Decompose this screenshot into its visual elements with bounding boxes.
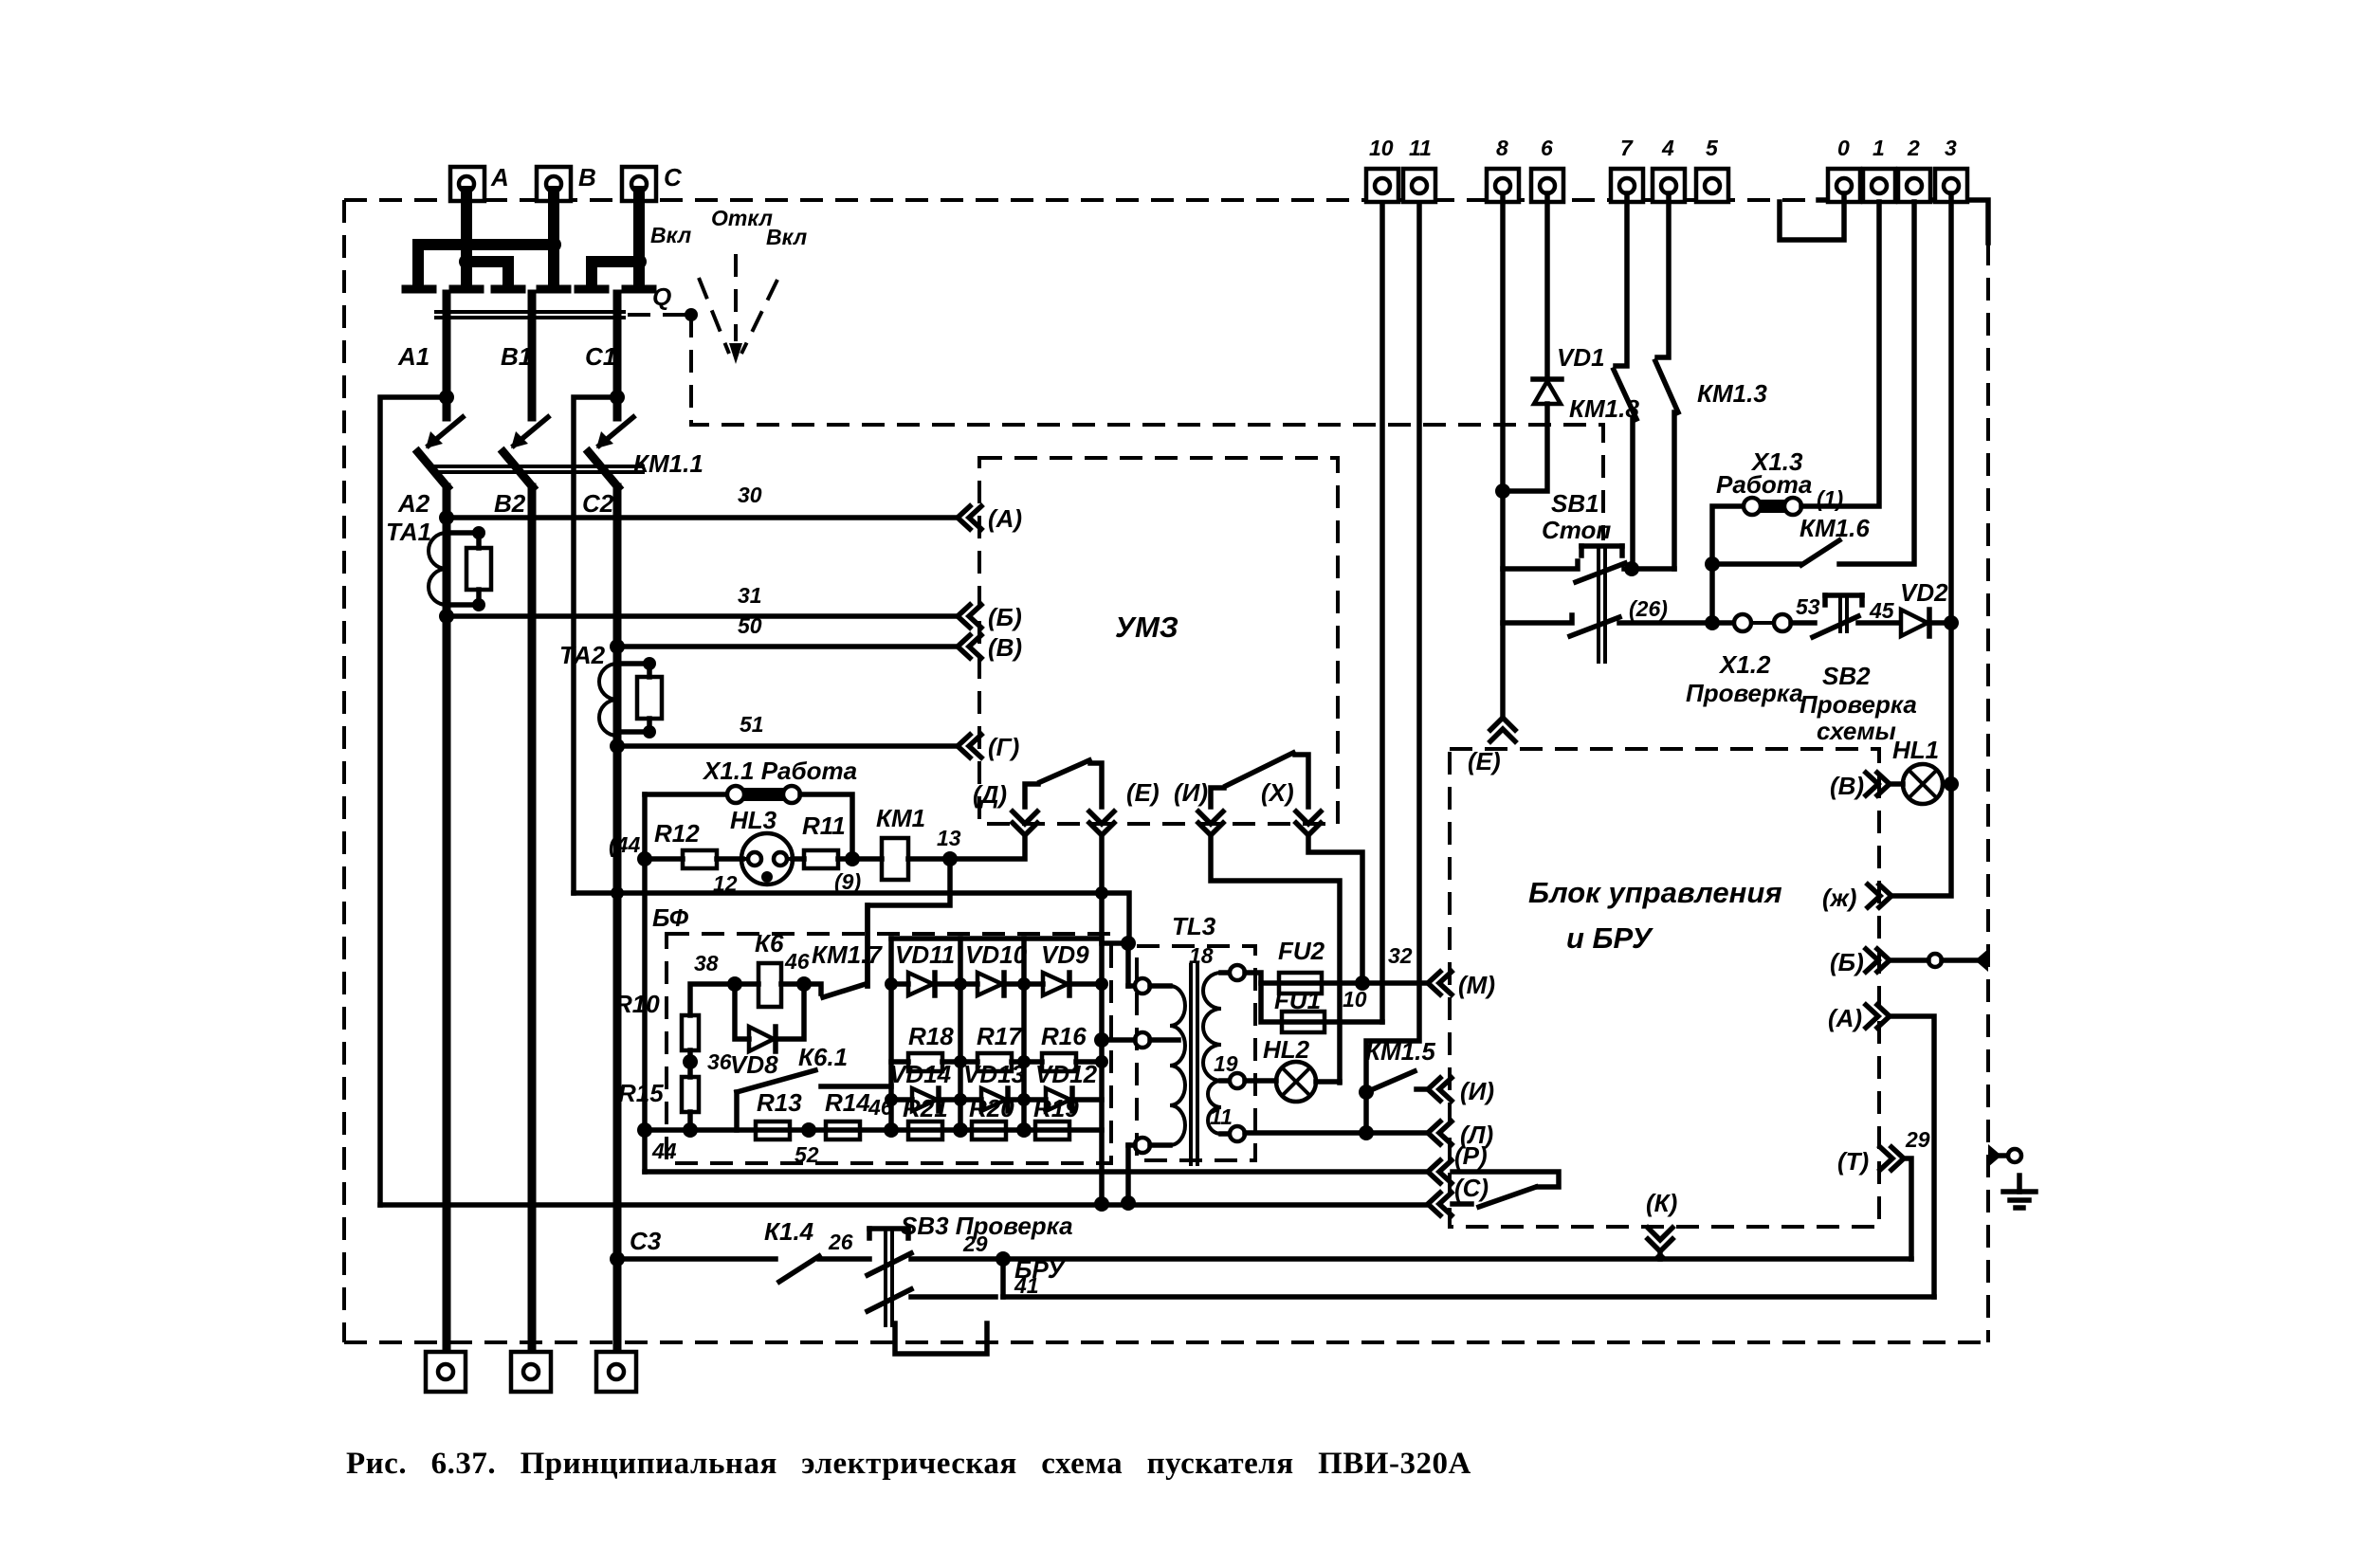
resistor R14 xyxy=(825,1088,893,1140)
svg-text:R15: R15 xyxy=(618,1079,664,1107)
wire terminal 0 loop xyxy=(1780,193,1844,240)
junction B bar xyxy=(546,237,561,252)
contact KM1.5 xyxy=(1359,202,1435,1133)
diode VD2 xyxy=(1900,578,1951,636)
svg-text:Вкл: Вкл xyxy=(766,225,807,249)
svg-text:R10: R10 xyxy=(614,990,660,1018)
connector (E) BRU xyxy=(1468,718,1515,775)
connector (B) xyxy=(958,603,1022,631)
connector (T) BRU xyxy=(1837,1127,1930,1176)
resistor TA1 burden xyxy=(447,526,491,611)
TL3 primary winding xyxy=(1094,978,1185,1211)
UMZ internal contact I-X xyxy=(1211,753,1308,807)
svg-text:VD12: VD12 xyxy=(1035,1060,1098,1088)
block BF dashed box xyxy=(652,903,1111,1163)
svg-text:ТА2: ТА2 xyxy=(559,641,606,669)
wire 41 to (A) xyxy=(1003,1294,1934,1300)
svg-text:38: 38 xyxy=(694,951,719,975)
breaker release arrow C xyxy=(596,417,633,448)
svg-text:(И): (И) xyxy=(1174,778,1208,807)
svg-text:(Б): (Б) xyxy=(988,603,1022,631)
junction C bar xyxy=(631,254,647,269)
node 46 xyxy=(784,949,812,992)
relay coil K6 xyxy=(735,929,804,1007)
terminal 11 xyxy=(1403,136,1435,202)
svg-text:(Р): (Р) xyxy=(1454,1141,1488,1170)
terminal B xyxy=(537,163,596,201)
connector (B) BRU xyxy=(1830,948,1890,976)
terminal 4 xyxy=(1653,136,1685,202)
terminal A xyxy=(450,163,509,201)
wire 32 to BRU (M) xyxy=(1355,943,1428,991)
connector X1.1 Rabota xyxy=(645,757,857,859)
svg-text:HL1: HL1 xyxy=(1892,736,1939,764)
disconnector Q crossbar xyxy=(434,283,671,318)
svg-text:30: 30 xyxy=(738,483,762,507)
svg-text:С3: С3 xyxy=(630,1227,662,1255)
diode VD14 xyxy=(889,1060,960,1111)
wire phase B feed xyxy=(548,191,559,286)
terminal 5 xyxy=(1696,136,1728,202)
resistor R11 xyxy=(793,811,852,868)
svg-text:(26): (26) xyxy=(1629,596,1668,621)
wire 30 to UMZ (A) xyxy=(439,483,958,525)
terminal C2 bottom xyxy=(596,1352,636,1392)
diode bridge verticals xyxy=(891,939,1102,1130)
svg-text:32: 32 xyxy=(1388,943,1413,968)
connector (Zh) BRU xyxy=(1822,884,1891,912)
terminal C xyxy=(622,163,683,201)
terminal 2 xyxy=(1898,136,1930,202)
lamp HL2 xyxy=(1245,1035,1340,1102)
wire terminal 3 down xyxy=(1891,193,1959,896)
figure caption xyxy=(346,1447,1471,1481)
row2 junctions xyxy=(954,1055,1108,1068)
svg-text:Х1.2: Х1.2 xyxy=(1718,650,1771,679)
svg-text:29: 29 xyxy=(962,1231,988,1256)
wire phase C feed xyxy=(633,191,645,281)
svg-text:В1: В1 xyxy=(501,342,532,371)
resistor R12 xyxy=(645,819,742,868)
svg-text:(В): (В) xyxy=(1830,772,1864,800)
svg-text:схемы: схемы xyxy=(1817,717,1896,745)
column C1 xyxy=(585,294,617,417)
svg-text:Стоп: Стоп xyxy=(1542,516,1611,544)
transformer TL3 dashed box xyxy=(1137,912,1255,1160)
svg-text:45: 45 xyxy=(1869,598,1895,623)
svg-text:VD9: VD9 xyxy=(1041,940,1089,969)
svg-text:К6: К6 xyxy=(755,929,784,957)
connector (L) BRU xyxy=(1428,1121,1493,1149)
enclosure dashed border top xyxy=(344,200,1988,243)
contact KM1.3 xyxy=(1655,193,1767,569)
Q linkage dashed xyxy=(628,308,1603,540)
svg-text:(ж): (ж) xyxy=(1822,884,1856,912)
svg-text:HL2: HL2 xyxy=(1263,1035,1310,1064)
svg-text:А1: А1 xyxy=(397,342,429,371)
svg-text:FU1: FU1 xyxy=(1274,986,1321,1014)
junction A bar xyxy=(459,254,474,269)
node (9) xyxy=(834,851,861,894)
svg-text:13: 13 xyxy=(937,826,961,850)
Q position arrows Vkl/Otkl xyxy=(650,206,807,364)
wire KM contacts to SB1 xyxy=(1624,561,1674,576)
KM1.1 linkage double line xyxy=(431,466,645,472)
connector (D) xyxy=(973,780,1037,835)
diode VD11 xyxy=(891,940,960,995)
svg-text:C: C xyxy=(664,163,683,191)
svg-text:R12: R12 xyxy=(654,819,700,848)
svg-text:2: 2 xyxy=(1907,136,1920,160)
resistor R19 xyxy=(1033,1094,1079,1140)
resistor R13 xyxy=(756,1088,802,1140)
svg-text:52: 52 xyxy=(795,1142,819,1167)
diode VD12 xyxy=(1024,1060,1102,1111)
wire 29 to (T) xyxy=(1003,1256,1911,1262)
wire (X) riser xyxy=(1308,835,1362,983)
svg-text:УМЗ: УМЗ xyxy=(1115,611,1178,644)
svg-text:10: 10 xyxy=(1369,136,1394,160)
svg-text:44: 44 xyxy=(651,1139,677,1163)
wire 31 to UMZ (B) xyxy=(439,583,958,624)
svg-text:(Е): (Е) xyxy=(1468,747,1501,775)
push-button SB1 Stop xyxy=(1503,489,1625,664)
svg-text:SB2: SB2 xyxy=(1822,662,1871,690)
svg-text:4: 4 xyxy=(1661,136,1674,160)
resistor TA2 burden xyxy=(617,657,662,738)
wire C1 branch left xyxy=(574,390,625,893)
diode VD13 xyxy=(960,1060,1026,1111)
resistor R16 xyxy=(1024,1022,1102,1071)
lamp HL1 xyxy=(1890,736,1943,804)
Q fixed contact stubs xyxy=(406,285,652,294)
column A1 xyxy=(397,294,447,417)
svg-text:(Г): (Г) xyxy=(988,733,1019,761)
svg-text:6: 6 xyxy=(1541,136,1553,160)
wire 50 to UMZ (V) xyxy=(610,613,958,654)
connector (V) BRU xyxy=(1830,772,1890,800)
svg-text:HL3: HL3 xyxy=(730,806,777,834)
connector (M) BRU xyxy=(1428,971,1495,999)
SB3 detent base xyxy=(895,1323,987,1354)
svg-text:R11: R11 xyxy=(802,811,846,840)
svg-text:31: 31 xyxy=(738,583,762,608)
terminal A2 bottom xyxy=(426,1352,466,1392)
column B1 xyxy=(501,294,532,417)
svg-text:3: 3 xyxy=(1945,136,1957,160)
svg-text:0: 0 xyxy=(1837,136,1850,160)
resistor R18 xyxy=(891,1022,960,1071)
wire (R) extension contact (S) xyxy=(1452,1172,1559,1207)
push-button SB2 xyxy=(1796,594,1917,745)
svg-text:(44): (44) xyxy=(609,832,648,857)
resistor R10 xyxy=(614,984,735,1050)
svg-text:КМ1.6: КМ1.6 xyxy=(1800,514,1870,542)
svg-text:TL3: TL3 xyxy=(1172,912,1216,940)
svg-text:46: 46 xyxy=(784,949,810,974)
UMZ internal contact D-E xyxy=(1025,760,1102,807)
contactor KM1.1 blade B xyxy=(503,452,533,487)
svg-text:VD8: VD8 xyxy=(730,1050,778,1079)
svg-text:(9): (9) xyxy=(834,869,861,894)
svg-text:А2: А2 xyxy=(397,489,430,518)
enclosure dashed border bottom xyxy=(344,1340,1988,1344)
node C3 xyxy=(610,1227,662,1267)
diode VD9 xyxy=(1024,940,1102,995)
svg-text:VD1: VD1 xyxy=(1557,343,1605,372)
push-button SB3 xyxy=(868,1212,1073,1327)
svg-text:В2: В2 xyxy=(494,489,526,518)
terminal 6 xyxy=(1531,136,1563,202)
svg-text:(А): (А) xyxy=(1828,1004,1862,1032)
TL3 core xyxy=(1191,963,1197,1166)
svg-text:Х1.1 Работа: Х1.1 Работа xyxy=(702,757,857,785)
disconnector Q bar A-right xyxy=(466,262,508,286)
connector (I) UMZ xyxy=(1174,778,1223,835)
fuse FU2 xyxy=(1245,937,1362,994)
connector (S) BRU xyxy=(1428,1174,1489,1215)
svg-text:ТА1: ТА1 xyxy=(386,518,431,546)
contact KM1.6 xyxy=(1705,202,1914,572)
lamp socket HL3 xyxy=(713,806,793,896)
svg-text:VD11: VD11 xyxy=(895,940,955,969)
breaker release arrow B xyxy=(511,417,548,448)
contact KM1.8 xyxy=(1614,193,1636,569)
breaker release arrow A xyxy=(426,417,463,448)
svg-text:8: 8 xyxy=(1496,136,1508,160)
svg-text:SB1: SB1 xyxy=(1551,489,1599,518)
column C2 xyxy=(582,487,617,1352)
svg-text:С2: С2 xyxy=(582,489,614,518)
connector (A) xyxy=(958,504,1022,533)
svg-text:B: B xyxy=(578,163,596,191)
contactor KM1.1 blade A xyxy=(418,452,448,487)
connector (I) BRU xyxy=(1428,1077,1494,1105)
svg-text:Вкл: Вкл xyxy=(650,223,691,247)
svg-text:К1.4: К1.4 xyxy=(764,1217,814,1246)
svg-text:VD2: VD2 xyxy=(1900,578,1948,607)
svg-text:51: 51 xyxy=(740,712,764,737)
wire terminal 8 down xyxy=(1495,193,1510,718)
column A2 xyxy=(397,487,447,1352)
connector (E) UMZ xyxy=(1089,778,1160,835)
wire phase A feed xyxy=(461,191,472,262)
svg-text:VD10: VD10 xyxy=(965,940,1028,969)
svg-text:29: 29 xyxy=(1905,1127,1930,1152)
block UMZ dashed box xyxy=(979,458,1338,824)
resistor R20 xyxy=(969,1094,1014,1140)
svg-text:1: 1 xyxy=(1873,136,1885,160)
svg-text:К6.1: К6.1 xyxy=(798,1043,848,1071)
earth ground symbol xyxy=(2003,1176,2036,1208)
svg-text:(В): (В) xyxy=(988,633,1022,662)
contact K6.1 xyxy=(737,1043,891,1130)
svg-text:(А): (А) xyxy=(988,504,1022,533)
svg-text:36: 36 xyxy=(707,1049,732,1074)
wire A1 bottom run to (S) xyxy=(380,1202,1428,1208)
diode VD1 xyxy=(1503,193,1639,491)
contact KM1.7 xyxy=(804,905,883,997)
svg-text:Q: Q xyxy=(652,283,671,311)
svg-text:41: 41 xyxy=(1014,1273,1039,1298)
terminal B2 bottom xyxy=(511,1352,551,1392)
resistor R17 xyxy=(960,1022,1024,1071)
SB1 lower contact row xyxy=(1503,615,1712,636)
wire node13 down to KM1.7 xyxy=(868,859,950,986)
connector X1.2 Proverka xyxy=(1629,596,1815,707)
connector (X) UMZ xyxy=(1261,778,1321,835)
resistor R15 xyxy=(618,1077,699,1130)
svg-text:7: 7 xyxy=(1620,136,1634,160)
terminal 10 xyxy=(1366,136,1398,202)
wire BF right bus from (E) xyxy=(1094,835,1109,1212)
wire node13 to (D) xyxy=(950,835,1025,859)
svg-text:КМ1.5: КМ1.5 xyxy=(1365,1037,1435,1066)
chassis earth stud right xyxy=(1988,1144,2021,1167)
wire 11 to BRU (L) xyxy=(1245,1125,1428,1140)
svg-text:Откл: Откл xyxy=(711,206,773,230)
svg-text:С1: С1 xyxy=(585,342,616,371)
wire (B) to chassis stud xyxy=(1890,949,1988,972)
terminal 1 xyxy=(1863,136,1895,202)
terminal 3 xyxy=(1935,136,1967,202)
wire BF frame left bus xyxy=(642,859,648,1172)
svg-text:Проверка: Проверка xyxy=(1800,690,1917,719)
row4 junctions xyxy=(884,1122,1032,1138)
TL3 secondary winding xyxy=(1189,943,1245,1141)
svg-text:Проверка: Проверка xyxy=(1686,679,1803,707)
connector X1.3 Rabota xyxy=(1712,202,1879,623)
enclosure dashed border left xyxy=(342,200,346,1342)
current transformer TA2 xyxy=(559,641,617,736)
svg-text:R19: R19 xyxy=(1033,1094,1079,1122)
diode VD8 xyxy=(730,984,804,1079)
fuse FU1 xyxy=(1261,983,1382,1032)
row3 junctions xyxy=(885,1093,1031,1106)
wire BF frame top xyxy=(574,886,1129,943)
svg-text:(Х): (Х) xyxy=(1261,778,1294,807)
svg-text:(Т): (Т) xyxy=(1837,1147,1869,1176)
terminal 0 xyxy=(1828,136,1860,202)
svg-text:46: 46 xyxy=(868,1095,893,1120)
svg-text:VD13: VD13 xyxy=(963,1060,1026,1088)
node 38 xyxy=(694,951,742,992)
svg-text:26: 26 xyxy=(828,1230,853,1254)
svg-text:FU2: FU2 xyxy=(1278,937,1325,965)
svg-text:R16: R16 xyxy=(1041,1022,1087,1050)
resistor R21 xyxy=(903,1094,948,1140)
column B2 xyxy=(494,487,532,1352)
svg-text:19: 19 xyxy=(1214,1051,1238,1076)
svg-text:Блок управления: Блок управления xyxy=(1528,876,1782,909)
svg-text:(И): (И) xyxy=(1460,1077,1494,1105)
svg-text:R18: R18 xyxy=(908,1022,954,1050)
node 52 xyxy=(795,1122,819,1167)
terminal 7 xyxy=(1611,136,1643,202)
relay coil KM1 xyxy=(852,804,950,880)
svg-text:R20: R20 xyxy=(969,1094,1014,1122)
wire 51 to UMZ (G) xyxy=(610,712,958,754)
svg-text:Рис. 6.37. Принципиальная э: Рис. 6.37. Принципиальная электрическая … xyxy=(346,1447,1471,1481)
disconnector Q bar B-left xyxy=(418,245,554,286)
connector (K) BRU xyxy=(1646,1189,1677,1259)
svg-text:(Е): (Е) xyxy=(1126,778,1160,807)
diode VD10 xyxy=(960,940,1028,995)
svg-text:(Д): (Д) xyxy=(973,780,1007,809)
svg-text:КМ1.7: КМ1.7 xyxy=(812,940,883,969)
svg-text:КМ1: КМ1 xyxy=(876,804,925,832)
node (44) xyxy=(609,832,652,866)
wire A1 branch left xyxy=(380,390,454,1205)
block BRU dashed box xyxy=(1450,749,1879,1227)
svg-text:11: 11 xyxy=(1210,1104,1233,1129)
contactor KM1.1 blade C xyxy=(589,449,703,487)
svg-text:R14: R14 xyxy=(825,1088,870,1117)
wire 10 to terminal 10 xyxy=(1343,202,1382,1022)
svg-text:Работа: Работа xyxy=(1716,470,1812,499)
node 36 xyxy=(683,1049,732,1077)
enclosure dashed border right xyxy=(1986,243,1990,1342)
svg-text:(К): (К) xyxy=(1646,1189,1677,1217)
svg-text:50: 50 xyxy=(738,613,762,638)
connector (R) BRU xyxy=(1428,1141,1488,1183)
disconnector Q bar C-left xyxy=(592,262,639,286)
svg-text:R13: R13 xyxy=(757,1088,802,1117)
svg-text:и БРУ: и БРУ xyxy=(1566,921,1653,955)
svg-text:R21: R21 xyxy=(903,1094,948,1122)
svg-text:53: 53 xyxy=(1796,594,1820,619)
svg-text:(С): (С) xyxy=(1454,1174,1489,1202)
svg-text:(Б): (Б) xyxy=(1830,948,1864,976)
svg-text:A: A xyxy=(490,163,509,191)
svg-text:5: 5 xyxy=(1706,136,1719,160)
connector (G) xyxy=(958,733,1019,761)
svg-text:(1): (1) xyxy=(1817,486,1843,511)
wire (I) riser xyxy=(1211,835,1340,1083)
svg-text:БФ: БФ xyxy=(652,903,689,932)
row1 junctions xyxy=(885,977,1108,991)
wire (T) 29 down xyxy=(1904,1158,1911,1259)
connector (A) BRU xyxy=(1828,1004,1890,1032)
wire (A) down right side xyxy=(1890,1016,1934,1297)
node 29 junction xyxy=(996,1251,1011,1297)
svg-text:(М): (М) xyxy=(1458,971,1495,999)
svg-text:18: 18 xyxy=(1189,943,1214,968)
wire bus to TL3 tap node xyxy=(1102,936,1136,986)
svg-text:11: 11 xyxy=(1409,136,1432,160)
terminal 8 xyxy=(1487,136,1519,202)
svg-text:R17: R17 xyxy=(977,1022,1023,1050)
contact K1.4 xyxy=(617,1217,869,1282)
svg-text:VD14: VD14 xyxy=(889,1060,952,1088)
current transformer TA1 xyxy=(386,518,447,605)
wire BF frame bottom to (R) xyxy=(645,1169,1428,1175)
node 44 bus row xyxy=(637,1122,1102,1163)
node 13 xyxy=(937,826,961,866)
connector (V) xyxy=(958,633,1022,662)
svg-text:КМ1.3: КМ1.3 xyxy=(1697,379,1767,408)
